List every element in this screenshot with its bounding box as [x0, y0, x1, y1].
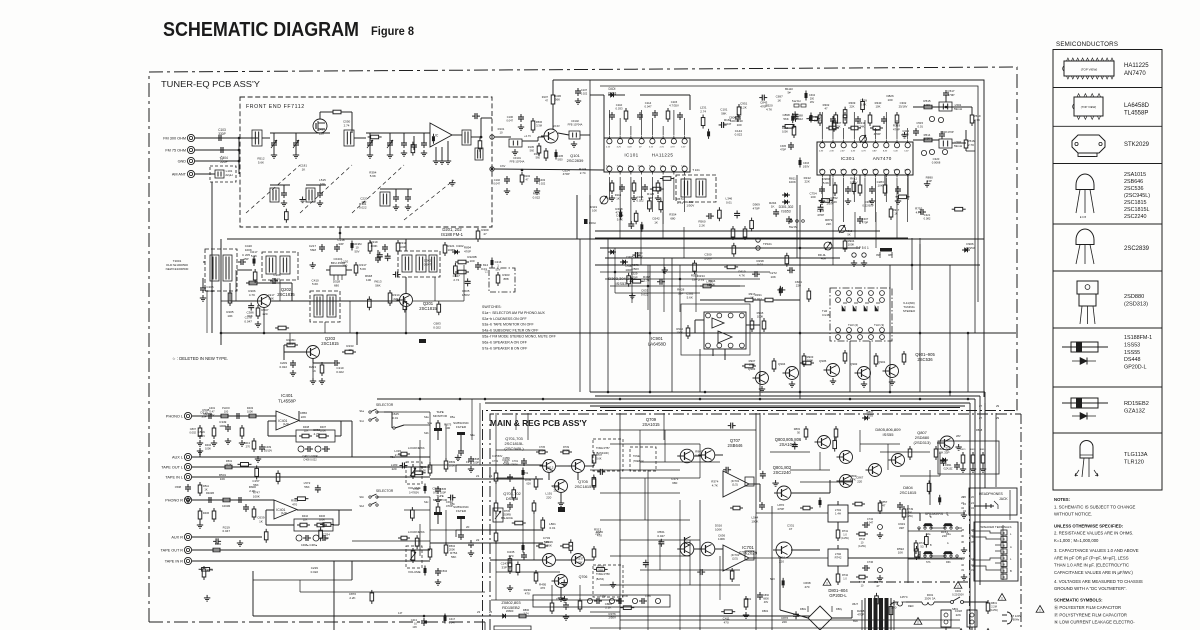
svg-text:S1a~: SELECTOR AM FM PHONO AU: S1a~: SELECTOR AM FM PHONO AUX [482, 311, 546, 315]
svg-text:1.4H: 1.4H [835, 512, 841, 516]
amp mesh R [770, 430, 940, 482]
svg-text:09V: 09V [876, 253, 881, 257]
svg-text:C318 470P: C318 470P [940, 130, 954, 134]
transistor Q702 [540, 554, 556, 567]
svg-text:2.74: 2.74 [344, 123, 350, 127]
svg-text:5.6K: 5.6K [687, 295, 693, 299]
selector L text [359, 403, 393, 423]
svg-text:0.082: 0.082 [924, 217, 931, 221]
transistor Q201 [397, 294, 438, 312]
svg-text:K=1,000 ; M=1,000,000: K=1,000 ; M=1,000,000 [1054, 538, 1099, 543]
reg parts mid [525, 473, 596, 506]
svg-text:470P: 470P [893, 127, 900, 131]
loudness R [398, 530, 425, 574]
svg-text:220: 220 [319, 132, 324, 136]
svg-text:TONE RT58: TONE RT58 [596, 573, 610, 576]
svg-text:270: 270 [246, 445, 251, 449]
svg-text:(2SD313): (2SD313) [913, 440, 931, 445]
legend box [1053, 50, 1162, 491]
vol parts L2 [409, 484, 447, 504]
svg-text:S1c: S1c [360, 419, 365, 423]
selector L sw [384, 412, 404, 429]
res R917b [889, 206, 900, 220]
svg-text:19: 19 [466, 460, 470, 464]
svg-text:0.022: 0.022 [433, 325, 441, 329]
svg-text:4.7K: 4.7K [712, 483, 718, 487]
svg-text:R407: R407 [320, 425, 327, 429]
svg-text:2SC1815: 2SC1815 [575, 484, 592, 489]
capacitor C105 [555, 150, 564, 162]
svg-text:100K: 100K [370, 244, 377, 248]
ic101 lower parts [609, 180, 661, 203]
label SPEAKERS [925, 512, 944, 516]
resistor R221 [443, 242, 455, 256]
svg-text:1.2V: 1.2V [660, 166, 665, 168]
svg-text:560: 560 [536, 156, 541, 160]
svg-text:1SS55: 1SS55 [1124, 350, 1140, 356]
ac plug [1002, 612, 1021, 624]
svg-text:FILTER: FILTER [456, 425, 467, 429]
svg-text:2SC1815: 2SC1815 [1124, 200, 1146, 206]
res R514 [921, 133, 935, 142]
fb wires L [268, 421, 352, 436]
svg-text:LA6458D: LA6458D [648, 341, 666, 346]
power Q708 [773, 542, 792, 558]
svg-text:5.4V: 5.4V [830, 170, 835, 172]
svg-text:THAN 1.0 ARE IN µF. (ELEC: THAN 1.0 ARE IN µF. (ELECTROLYTIC [1054, 563, 1129, 568]
capacitor C102b [494, 176, 511, 194]
bus junction dots [220, 136, 970, 401]
svg-text:C401: C401 [209, 406, 216, 410]
svg-text:470P: 470P [817, 213, 824, 217]
svg-text:!: ! [957, 584, 958, 589]
transformer T102 [344, 130, 366, 146]
svg-text:S2a~b LOUDNESS ON OFF: S2a~b LOUDNESS ON OFF [482, 317, 527, 321]
MAIN & REG PCB ASS'Y label [490, 418, 587, 428]
svg-text:SPEAKERS: SPEAKERS [925, 512, 944, 516]
svg-text:C701: C701 [492, 459, 499, 463]
svg-text:100K: 100K [219, 424, 226, 428]
wire cluster decoder-area [625, 243, 810, 302]
svg-text:TAPE IN R: TAPE IN R [165, 560, 184, 564]
svg-text:0.047: 0.047 [223, 529, 231, 533]
svg-text:FILTER: FILTER [456, 509, 467, 513]
transistor Q902 [850, 362, 871, 380]
svg-text:5.6K: 5.6K [563, 449, 568, 452]
svg-text:56K: 56K [203, 412, 208, 416]
reg h wires [491, 450, 620, 600]
svg-text:3.3V: 3.3V [670, 166, 675, 168]
svg-text:10K: 10K [898, 551, 903, 555]
label IC901 [648, 304, 750, 355]
wire FM300 [195, 137, 240, 140]
sw labels extra [424, 415, 455, 506]
label Q807 [913, 430, 931, 445]
test points [851, 253, 867, 266]
IC U901 LA6458D [704, 312, 746, 349]
reg chain parts [494, 413, 536, 600]
svg-text:R503: R503 [420, 465, 427, 469]
svg-text:22K: 22K [393, 297, 398, 301]
fb wires R [266, 510, 352, 525]
svg-text:R821: R821 [960, 449, 966, 451]
TLR leds [842, 303, 880, 311]
transistor Q704 [569, 554, 585, 567]
svg-text:+2.7V: +2.7V [524, 134, 531, 138]
svg-text:2.3V: 2.3V [840, 151, 845, 153]
capacitor C318 [939, 130, 954, 139]
svg-text:FFE-10704A: FFE-10704A [510, 160, 525, 164]
tuning cap TC1 [271, 133, 277, 158]
varactor group 3 [380, 189, 412, 210]
svg-text:0.01: 0.01 [550, 526, 556, 530]
wire q202 q201 [246, 283, 399, 301]
svg-text:RD15EB2: RD15EB2 [1124, 401, 1149, 407]
inductor LT01 [828, 501, 848, 527]
svg-text:S7a~b SPEAKER B ON OFF: S7a~b SPEAKER B ON OFF [482, 346, 527, 350]
transistor Q101 [541, 124, 584, 163]
resistor above Q901 [889, 351, 906, 385]
svg-text:FRONT END FF7112: FRONT END FF7112 [246, 104, 305, 110]
svg-text:R803: R803 [794, 427, 801, 431]
svg-text:100K: 100K [253, 494, 260, 498]
wire cluster reg-area [501, 456, 606, 602]
svg-text:100K: 100K [399, 245, 406, 249]
svg-text:0.047: 0.047 [424, 262, 432, 266]
svg-text:56K: 56K [247, 314, 252, 318]
svg-text:ISS53: ISS53 [616, 281, 628, 286]
wire cluster if-strip-lower [615, 175, 965, 232]
svg-text:470P: 470P [947, 93, 954, 97]
svg-text:2.74: 2.74 [677, 201, 683, 205]
svg-text:2SB646: 2SB646 [1124, 179, 1143, 185]
svg-text:100K: 100K [848, 243, 855, 247]
svg-text:10K: 10K [577, 560, 582, 564]
svg-text:1. SCHEMATIC IS SUBJECT TO: 1. SCHEMATIC IS SUBJECT TO CHANGE [1054, 504, 1136, 509]
fb caps L [298, 446, 330, 462]
caps C515 C516 [916, 116, 943, 128]
svg-text:☆: ☆ [484, 269, 489, 275]
svg-text:CAPACITANCE VALUES ARE IN: CAPACITANCE VALUES ARE IN µF/WV.) [1054, 570, 1133, 575]
eq to main wires [430, 465, 543, 543]
tuning cap TC3 [367, 133, 373, 158]
svg-text:IC901: IC901 [651, 336, 663, 341]
res R916 [700, 279, 740, 288]
IC301 pin risers [822, 112, 907, 139]
svg-text:Q902: Q902 [850, 362, 858, 366]
transistor Q703 [569, 460, 585, 473]
res amp cluster1 [794, 426, 945, 460]
svg-text:100K: 100K [287, 342, 294, 346]
svg-text:0.022: 0.022 [533, 196, 541, 200]
svg-text:2.3V: 2.3V [819, 151, 824, 153]
cap C732 [862, 517, 883, 538]
transistor Q807 [937, 428, 983, 450]
svg-text:0.047: 0.047 [507, 119, 514, 123]
res R516 [964, 137, 975, 151]
svg-text:R102: R102 [524, 174, 531, 178]
svg-text:3.8V: 3.8V [851, 170, 856, 172]
svg-text:0.01: 0.01 [757, 263, 763, 267]
svg-text:S4a~b SUBSONIC FILTER ON OFF: S4a~b SUBSONIC FILTER ON OFF [482, 329, 538, 333]
svg-text:4.7/35V: 4.7/35V [669, 104, 679, 108]
amp bottom rail [590, 612, 960, 620]
svg-text:R402B: R402B [206, 491, 214, 495]
svg-text:TL4558P: TL4558P [278, 398, 296, 403]
svg-text:FM 300 OHM: FM 300 OHM [163, 137, 186, 141]
svg-text:8.4V: 8.4V [883, 151, 888, 153]
svg-text:4.7K: 4.7K [249, 293, 255, 297]
svg-text:DS448: DS448 [1124, 357, 1140, 363]
ic101 upper parts [609, 100, 683, 122]
legend TO92a [1076, 174, 1094, 219]
svg-text:1/50V: 1/50V [197, 434, 205, 438]
svg-text:LOUDNESS: LOUDNESS [408, 446, 425, 450]
svg-text:22K: 22K [782, 620, 787, 624]
transistor Q903 [748, 367, 769, 385]
svg-text:470P: 470P [760, 104, 767, 108]
svg-text:56K: 56K [783, 117, 788, 121]
svg-text:56K: 56K [721, 111, 726, 115]
svg-text:0.3V: 0.3V [872, 170, 877, 172]
dashed gang line [246, 165, 454, 220]
svg-text:29: 29 [996, 404, 1000, 408]
power wires [780, 558, 988, 630]
capacitor C210 [332, 360, 344, 374]
svg-text:0.47/50V: 0.47/50V [409, 491, 419, 494]
svg-text:33P: 33P [648, 196, 653, 200]
svg-text:2.1V: 2.1V [606, 147, 611, 149]
svg-text:22K: 22K [804, 180, 809, 184]
resistor R208 [284, 338, 298, 347]
svg-text:(1/2W): (1/2W) [841, 537, 849, 540]
svg-text:2SD880: 2SD880 [1124, 294, 1144, 300]
svg-text:2.74: 2.74 [453, 278, 459, 282]
title text [163, 18, 359, 41]
capacitor C218 [334, 238, 345, 252]
svg-text:56K: 56K [451, 555, 456, 559]
reg parts top [508, 446, 603, 466]
svg-text:1K: 1K [777, 99, 781, 103]
svg-text:R406: R406 [319, 514, 326, 518]
svg-text:R402: R402 [205, 443, 212, 447]
svg-text:470: 470 [508, 554, 513, 558]
svg-text:3.1V: 3.1V [649, 147, 654, 149]
ic901 wires [695, 320, 760, 360]
svg-text:680: 680 [672, 481, 677, 485]
amp out wires [848, 513, 920, 558]
jack TAPE IN L [165, 473, 191, 480]
cap can C802 [967, 610, 977, 627]
svg-text:C504: C504 [441, 569, 448, 573]
svg-text:2SC2240: 2SC2240 [773, 470, 791, 475]
svg-text:470P: 470P [862, 221, 868, 225]
svg-text:(1/2): (1/2) [283, 422, 289, 426]
svg-text:VOLUME: VOLUME [408, 570, 421, 574]
svg-text:C736: C736 [867, 560, 874, 564]
svg-text:PHOO: PHOO [222, 406, 230, 410]
transformer T103 [462, 130, 482, 145]
svg-text:47: 47 [789, 527, 793, 531]
svg-text:29: 29 [996, 416, 1000, 420]
svg-text:TLR (3): TLR (3) [874, 323, 884, 327]
svg-text:D30H: D30H [589, 221, 596, 225]
op-amp IC fe [430, 123, 462, 147]
tape in L wire [175, 477, 430, 502]
svg-text:!: ! [1039, 608, 1040, 613]
svg-text:R403: R403 [247, 406, 254, 410]
svg-text:1/50V: 1/50V [850, 181, 858, 185]
deleted note [172, 356, 228, 361]
svg-text:100: 100 [342, 263, 347, 267]
svg-text:2.74: 2.74 [547, 470, 553, 474]
label Q901-905 [915, 352, 935, 362]
svg-text:0.022: 0.022 [336, 370, 344, 374]
svg-text:TONE RT57: TONE RT57 [596, 447, 610, 450]
res R904b [843, 238, 855, 252]
svg-text:R917: R917 [893, 208, 900, 212]
svg-text:330P: 330P [218, 132, 225, 136]
resistor R504 [524, 118, 543, 138]
svg-text:SCHEMATIC SYMBOLS:: SCHEMATIC SYMBOLS: [1054, 598, 1103, 603]
svg-text:100K: 100K [782, 130, 788, 133]
bus corners down [970, 392, 985, 630]
svg-text:C409: C409 [265, 445, 272, 449]
ceramic CF201 [326, 257, 352, 280]
svg-text:3.4V: 3.4V [649, 166, 654, 168]
svg-text:56K: 56K [375, 283, 380, 287]
svg-text:100: 100 [811, 195, 816, 199]
svg-text:59mH: 59mH [954, 144, 962, 148]
svg-text:56K: 56K [555, 98, 560, 102]
label Z0802 [501, 600, 521, 610]
svg-text:0.047: 0.047 [244, 319, 252, 323]
label Q707 [728, 438, 744, 448]
svg-text:PHONO L: PHONO L [166, 415, 183, 419]
svg-text:100: 100 [891, 605, 896, 609]
svg-text:220: 220 [857, 479, 862, 483]
svg-text:33P: 33P [927, 179, 932, 183]
svg-text:22µH: 22µH [225, 173, 232, 177]
transistor Q904 [778, 362, 799, 380]
transistor QA2 [698, 448, 715, 462]
svg-text:1S188FM-1: 1S188FM-1 [1124, 335, 1152, 341]
res R801 [986, 600, 998, 614]
boxed R303 dash-dot [484, 268, 515, 292]
resistor R217 [354, 262, 367, 276]
svg-text:S2a: S2a [424, 415, 429, 419]
TLR labels [822, 309, 884, 327]
output filter box [533, 595, 670, 607]
svg-text:Q904: Q904 [778, 362, 786, 366]
svg-text:D6b: D6b [946, 561, 951, 564]
capacitor C214 [475, 262, 488, 271]
aux L wire [192, 456, 430, 458]
tape out L wire [192, 459, 430, 469]
svg-text:5.6K: 5.6K [503, 462, 509, 466]
svg-text:S7b: S7b [926, 561, 931, 564]
label D804 [900, 485, 917, 495]
svg-text:R107: R107 [542, 95, 549, 99]
svg-text:4.7V: 4.7V [617, 166, 622, 168]
svg-text:E C B: E C B [1080, 216, 1087, 219]
diode D906 [962, 242, 975, 252]
svg-text:250V 3A: 250V 3A [925, 597, 936, 601]
resistor network R220 [455, 255, 477, 274]
svg-text:1/50V: 1/50V [704, 257, 712, 261]
svg-text:470P: 470P [857, 613, 864, 617]
svg-text:1K: 1K [616, 197, 620, 201]
jack AUX R [171, 533, 191, 540]
svg-text:0.6V: 0.6V [500, 164, 506, 168]
FRONT END dashed box [240, 97, 492, 227]
svg-text:33P: 33P [502, 565, 507, 569]
electrolytic C216 [491, 258, 502, 272]
svg-text:S4a: S4a [470, 433, 475, 437]
svg-text:C807: C807 [190, 427, 197, 431]
eq long feed [299, 411, 352, 457]
resistor R219 [368, 240, 378, 254]
svg-text:R506: R506 [536, 120, 543, 124]
svg-text:470: 470 [540, 586, 545, 590]
resistor R207 [255, 305, 269, 327]
svg-text:0.3V: 0.3V [851, 151, 856, 153]
svg-text:22K: 22K [301, 415, 306, 419]
svg-text:0.22/50V: 0.22/50V [862, 204, 873, 208]
wire bus y258 [605, 257, 840, 259]
op-amp IC701a [723, 471, 754, 497]
svg-text:ISS5: ISS5 [867, 414, 874, 418]
svg-text:56K: 56K [546, 544, 551, 548]
wire cluster frontend [257, 113, 481, 223]
wire q203 [284, 345, 332, 363]
svg-text:RT42: RT42 [835, 556, 842, 560]
svg-text:C508: C508 [473, 457, 480, 461]
transistor Q203 [304, 336, 340, 359]
transistor QB3 [837, 475, 853, 488]
transistor Q202 [255, 287, 296, 308]
svg-text:220: 220 [942, 534, 947, 538]
svg-text:100K: 100K [718, 537, 725, 541]
svg-text:BLK: BLK [853, 619, 858, 623]
IC U101 HA11225 [604, 136, 690, 175]
svg-text:100: 100 [737, 123, 742, 127]
svg-text:33P: 33P [324, 536, 329, 540]
svg-text:T 101: T 101 [692, 168, 700, 172]
svg-text:47: 47 [824, 107, 828, 111]
svg-text:0.01: 0.01 [274, 277, 280, 281]
svg-text:2SB646: 2SB646 [728, 443, 744, 448]
svg-text:470P: 470P [563, 172, 570, 176]
svg-text:10K: 10K [876, 105, 881, 109]
wire down x577 [577, 195, 590, 392]
label Q801 802 [773, 465, 792, 475]
svg-text:LOUDNESS: LOUDNESS [408, 530, 425, 534]
svg-text:1/50V: 1/50V [631, 267, 639, 271]
bottom left power parts [743, 592, 770, 618]
TLR pins top [836, 291, 885, 303]
svg-text:0.022: 0.022 [735, 133, 743, 137]
res R903 100K [800, 355, 814, 365]
diode D202 [452, 244, 464, 254]
speaker terminals box [974, 522, 1018, 581]
svg-text:TLR (2): TLR (2) [848, 323, 858, 327]
connector strip [494, 626, 531, 630]
loudness L [390, 446, 424, 490]
transistor QA4 [698, 542, 715, 556]
power labels [745, 577, 775, 613]
svg-text:!: ! [826, 581, 827, 586]
